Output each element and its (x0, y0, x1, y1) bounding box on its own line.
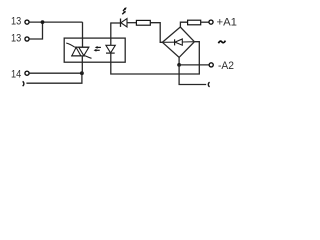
phototriac right triangle (79, 47, 89, 56)
phototriac top bar MT2 (75, 46, 89, 48)
svg-text:+A1: +A1 (217, 17, 238, 29)
phototriac left triangle (72, 47, 81, 56)
svg-text:13: 13 (11, 15, 21, 27)
terminal 14 (25, 71, 29, 75)
wire dot to terminal -A2 (179, 64, 209, 66)
terminal 13 upper (25, 20, 29, 24)
indicator LED D1 (points left) (121, 19, 127, 27)
wire 13 lower up to junction (30, 22, 43, 39)
bridge diode cathode bar (174, 39, 176, 45)
wire R2 to terminal +A1 (201, 21, 209, 23)
optocoupler box U1 (64, 38, 125, 62)
wire indicator branch (111, 22, 120, 24)
terminal +A1 (209, 20, 213, 24)
wire -A2 node down to test socket right (179, 65, 206, 85)
terminal 13 lower (25, 37, 29, 41)
optocoupler light arrow upper (97, 46, 101, 48)
wire R1 to bridge left corner (150, 23, 162, 43)
wire LED to resistor R1 (127, 22, 136, 24)
wire bridge top to resistor R2 (180, 22, 187, 27)
phototriac lower stub (85, 56, 91, 58)
indicator LED emission arrow lower (122, 12, 124, 14)
svg-text:13: 13 (11, 32, 21, 44)
resistor R2 (188, 20, 201, 25)
wire opto LED anode up to indicator branch corner (110, 23, 113, 45)
wire opto LED cathode down to right rail (111, 42, 200, 74)
junction dot 13 bus (41, 20, 45, 24)
bridge internal wire right (182, 41, 194, 43)
optocoupler LED cathode bar (106, 52, 115, 54)
optocoupler light arrow lower (96, 49, 100, 51)
junction dot MT1 node (80, 71, 84, 75)
test socket terminal (right, arc) (208, 82, 209, 87)
indicator LED emission arrow upper (123, 9, 125, 11)
svg-text:14: 14 (11, 69, 21, 81)
wire triac MT1 down to junction (81, 56, 83, 73)
junction dot -A2 node (177, 63, 181, 67)
bridge internal wire left (162, 41, 174, 43)
wire 13 upper to junction and box (30, 21, 83, 23)
indicator LED D1 cathode bar (120, 19, 122, 27)
test socket terminal (left, arc) (23, 81, 24, 86)
wire 14 to triac MT1 junction (30, 72, 82, 74)
wire from 13 bus down to triac MT2 (82, 22, 84, 47)
phototriac bottom bar MT1 (71, 55, 85, 57)
AC symbol ~ (218, 41, 225, 44)
phototriac gate stub (66, 43, 74, 47)
bridge rectifier diamond (162, 27, 194, 57)
terminal -A2 (209, 63, 213, 67)
wire MT1 node down to test socket (26, 73, 82, 83)
svg-text:-A2: -A2 (218, 60, 234, 72)
wire bridge bottom to -A2 dot (178, 57, 180, 65)
optocoupler LED D2 (inside box, cathode down) (106, 45, 115, 53)
resistor R1 (136, 20, 150, 25)
bridge diode (points left) (175, 39, 182, 45)
